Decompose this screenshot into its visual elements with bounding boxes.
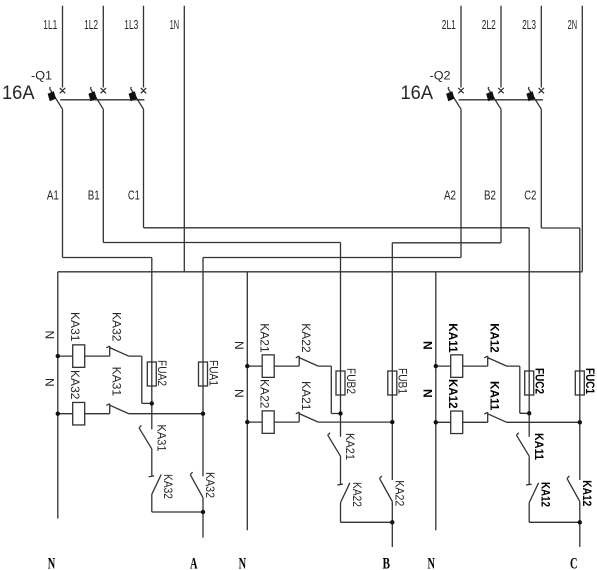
svg-text:N: N: [48, 555, 56, 570]
svg-text:-Q1: -Q1: [31, 70, 52, 82]
svg-text:1N: 1N: [170, 18, 180, 32]
svg-text:B1: B1: [88, 188, 100, 203]
svg-text:N: N: [239, 555, 247, 570]
svg-text:KA21: KA21: [299, 381, 311, 411]
svg-text:FUB1: FUB1: [396, 368, 408, 394]
svg-text:C1: C1: [128, 188, 140, 203]
svg-text:N: N: [427, 555, 435, 570]
svg-text:2L3: 2L3: [522, 18, 536, 32]
svg-text:C: C: [570, 555, 578, 570]
svg-text:KA12: KA12: [580, 480, 592, 506]
svg-text:KA12: KA12: [487, 323, 499, 353]
svg-text:FUC1: FUC1: [583, 368, 595, 395]
svg-text:KA21: KA21: [343, 433, 355, 460]
svg-text:KA21: KA21: [257, 323, 269, 353]
svg-text:A1: A1: [47, 188, 59, 203]
svg-text:16A: 16A: [401, 83, 434, 104]
svg-text:KA22: KA22: [393, 480, 405, 506]
svg-text:KA32: KA32: [203, 472, 215, 498]
svg-text:B: B: [382, 555, 390, 570]
svg-text:FUA1: FUA1: [206, 360, 218, 386]
svg-text:KA11: KA11: [532, 433, 544, 461]
svg-text:1L1: 1L1: [43, 18, 57, 32]
svg-text:N: N: [42, 378, 56, 387]
svg-text:N: N: [420, 341, 434, 350]
svg-text:KA12: KA12: [446, 379, 458, 409]
svg-text:B2: B2: [484, 188, 496, 203]
svg-text:-Q2: -Q2: [430, 70, 451, 82]
svg-text:N: N: [42, 331, 56, 340]
svg-text:KA32: KA32: [68, 370, 80, 400]
svg-text:FUB2: FUB2: [344, 368, 356, 394]
svg-text:KA22: KA22: [299, 323, 311, 353]
svg-text:KA22: KA22: [257, 379, 269, 409]
svg-text:2L2: 2L2: [482, 18, 496, 32]
svg-text:A: A: [190, 555, 198, 570]
svg-text:KA12: KA12: [539, 482, 551, 507]
svg-text:KA22: KA22: [350, 482, 362, 507]
svg-text:N: N: [420, 389, 434, 398]
svg-text:KA31: KA31: [68, 312, 80, 342]
svg-text:C2: C2: [524, 188, 536, 203]
svg-text:KA32: KA32: [161, 474, 173, 499]
svg-text:1L2: 1L2: [84, 18, 98, 32]
svg-text:1L3: 1L3: [124, 18, 138, 32]
svg-text:N: N: [232, 341, 246, 350]
svg-text:16A: 16A: [2, 83, 35, 104]
svg-text:2N: 2N: [568, 18, 578, 32]
svg-text:A2: A2: [444, 188, 456, 203]
svg-text:N: N: [232, 389, 246, 398]
svg-text:KA11: KA11: [487, 381, 499, 411]
svg-text:KA11: KA11: [446, 323, 458, 353]
svg-text:FUA2: FUA2: [155, 360, 167, 386]
svg-text:FUC2: FUC2: [533, 368, 545, 394]
svg-text:KA31: KA31: [155, 425, 167, 452]
svg-text:KA31: KA31: [109, 367, 121, 397]
svg-text:KA32: KA32: [109, 312, 121, 342]
svg-text:2L1: 2L1: [442, 18, 456, 32]
